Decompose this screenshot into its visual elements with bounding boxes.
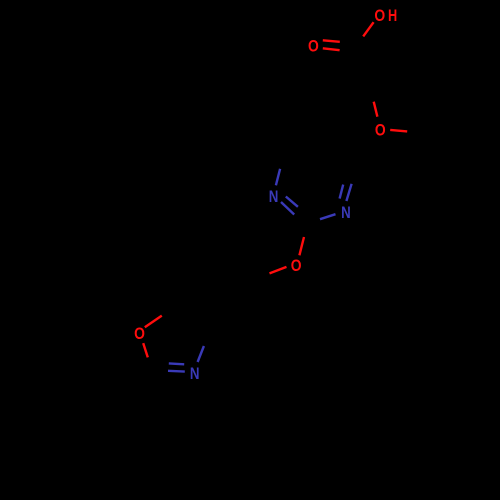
wire bond C2=N3 oxazole axis line (blue half)	[168, 370, 185, 373]
wire bond N1=C2 pyrimidine outer line (blue half)	[281, 202, 294, 215]
svg-text:O: O	[374, 6, 385, 25]
wire bond N1pym-C6 (blue half)	[276, 169, 280, 186]
wire bond N3pym-C2 (blue half)	[320, 214, 336, 219]
svg-text:N: N	[269, 187, 279, 206]
wire bond C=O lower line (red half)	[323, 48, 340, 50]
wire bond N3=C4 pyrimidine inner line (blue half)	[340, 185, 344, 199]
svg-text:N: N	[341, 203, 351, 222]
wire bond Ooxazole-C2 (red half)	[143, 343, 148, 357]
wire bond C-OH (red half)	[363, 22, 373, 36]
wire bond N3=C4 pyrimidine axis line (blue half)	[346, 184, 351, 201]
wire bond Olink-CH2 (red half)	[270, 267, 287, 274]
wire bond Ooxazole-C7a (red half)	[145, 316, 162, 328]
svg-text:O: O	[375, 120, 386, 139]
wire bond Oether-C5thf (red half)	[390, 130, 407, 132]
svg-text:O: O	[134, 324, 145, 343]
wire bond C2thf-Oether (red half)	[374, 102, 378, 117]
svg-text:O: O	[291, 256, 302, 275]
wire bond C2pym-Olink (red half)	[299, 237, 304, 255]
wire bond N3oxazole-C3a (blue half)	[198, 346, 204, 362]
svg-text:H: H	[388, 6, 397, 25]
wire bond C2=N3 oxazole inner line (blue half)	[169, 362, 184, 365]
wire bond C=O upper line (red half)	[323, 40, 340, 42]
svg-text:O: O	[308, 37, 319, 56]
wire bond N1=C2 pyrimidine inner line (blue half)	[286, 197, 298, 207]
svg-text:N: N	[190, 364, 200, 383]
